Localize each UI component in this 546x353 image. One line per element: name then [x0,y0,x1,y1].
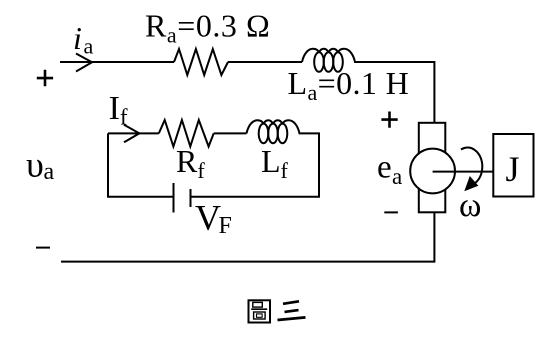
svg-text:J: J [506,149,520,189]
svg-text:a: a [84,33,94,58]
svg-text:a: a [44,159,55,185]
svg-text:e: e [377,149,392,185]
svg-text:Ra=0.3 Ω: Ra=0.3 Ω [145,8,270,48]
svg-text:a: a [392,164,402,189]
svg-text:υ: υ [26,145,44,185]
svg-text:ω: ω [459,187,481,224]
svg-text:i: i [73,20,82,56]
svg-text:La=0.1 H: La=0.1 H [288,65,410,105]
